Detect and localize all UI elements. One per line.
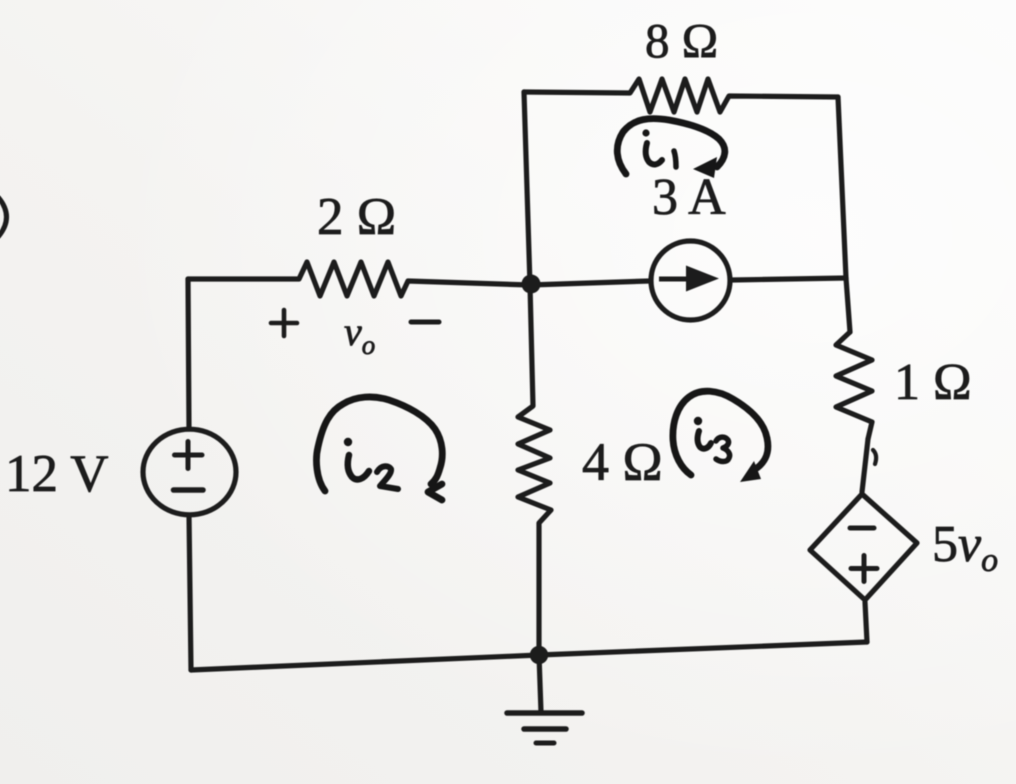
- svg-text:2 Ω: 2 Ω: [317, 188, 396, 246]
- svg-text:3 A: 3 A: [652, 169, 726, 226]
- svg-text:12 V: 12 V: [5, 445, 109, 503]
- svg-text:8 Ω: 8 Ω: [645, 13, 718, 68]
- svg-text:4 Ω: 4 Ω: [582, 432, 663, 492]
- svg-text:1 Ω: 1 Ω: [894, 354, 972, 411]
